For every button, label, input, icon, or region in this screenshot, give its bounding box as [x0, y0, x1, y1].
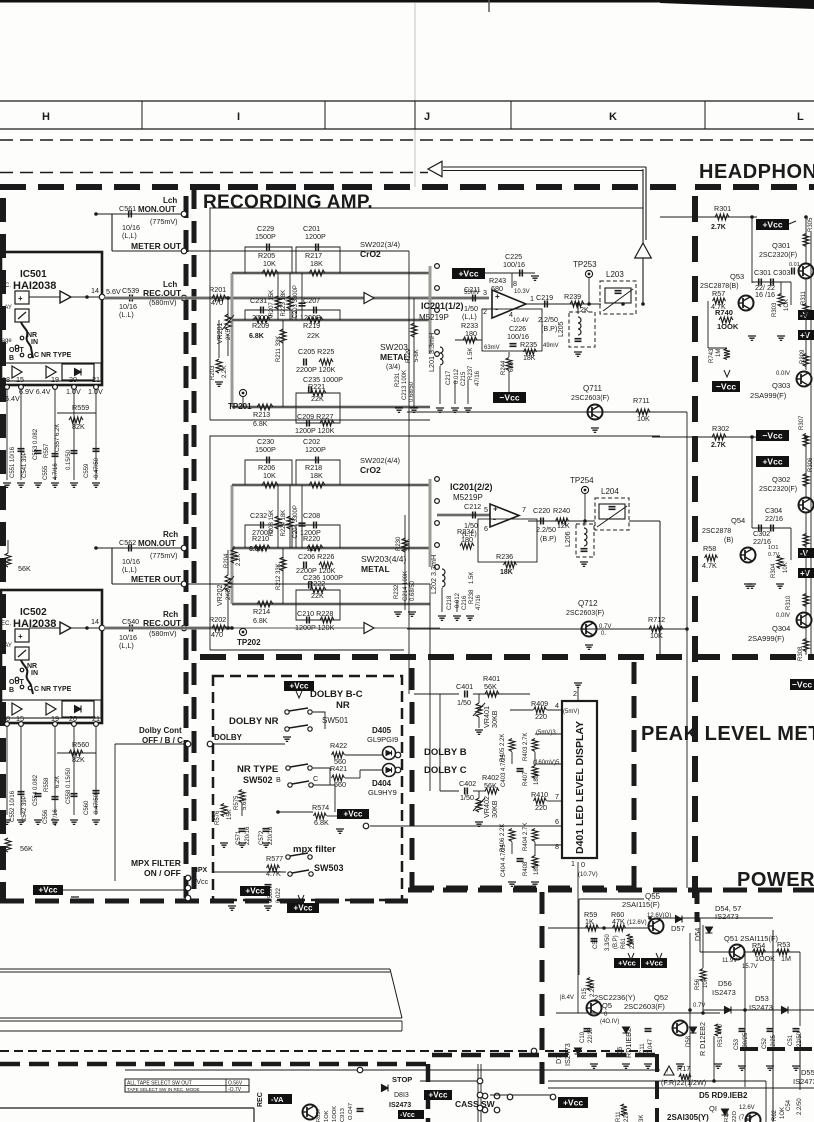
svg-text:C559: C559: [84, 463, 90, 478]
ground r576: [220, 843, 228, 847]
wire ic502 out2: [71, 627, 104, 629]
junction fb R: [658, 627, 662, 631]
wire mpx vcc: [70, 889, 186, 891]
resistor R58: [705, 555, 718, 561]
svg-text:IS2473: IS2473: [793, 1077, 814, 1086]
ground col a1: [395, 408, 403, 412]
svg-text:C552 10/16: C552 10/16: [10, 790, 16, 822]
svg-text:D57: D57: [671, 924, 685, 933]
cap loop2b R: [296, 525, 340, 548]
svg-text:MON.OUT: MON.OUT: [138, 539, 176, 548]
svg-text:C913: C913: [340, 1108, 346, 1122]
ground cluster a x38: [34, 483, 42, 487]
resistor R304: [777, 556, 783, 569]
capacitor C225: [520, 270, 523, 277]
wire q51: [699, 918, 701, 952]
svg-text:1OOK: 1OOK: [717, 322, 739, 331]
svg-text:6.8K: 6.8K: [249, 546, 264, 553]
resistor R404: [532, 829, 538, 842]
svg-text:LAY: LAY: [1, 305, 12, 311]
wire r244b: [508, 371, 510, 392]
mpx vcc arrow: [298, 895, 304, 902]
svg-text:R307: R307: [799, 415, 805, 430]
long wire bottom b1: [0, 1017, 402, 1019]
ground c225: [531, 276, 539, 280]
cass sw c3: [482, 1107, 488, 1113]
IC501 buffer triangle: [60, 291, 71, 303]
wire r574b: [327, 815, 337, 817]
stop node3: [477, 1105, 483, 1111]
ground col a5: [464, 408, 472, 412]
svg-text:−Vcc: −Vcc: [792, 679, 812, 689]
variable resistor VR402: [476, 798, 482, 812]
svg-text:+Vcc: +Vcc: [563, 1097, 583, 1107]
switch contact a3: [20, 353, 24, 357]
flow arrow rch: [364, 623, 374, 634]
resistor R310 sym: [803, 594, 809, 607]
svg-text:0.: 0.: [601, 631, 606, 637]
transistor Q51: [730, 945, 745, 960]
transistor Q304: [797, 613, 812, 628]
svg-text:R224 18K: R224 18K: [281, 510, 287, 537]
svg-text:1.5K: 1.5K: [469, 572, 475, 584]
IC501 pin circle x7: [5, 385, 10, 390]
NR switch wiggle wire b: [21, 660, 33, 694]
wire rv L: [277, 273, 279, 320]
svg-text:R58: R58: [703, 544, 716, 553]
svg-text:D58: D58: [686, 1035, 692, 1047]
resistor C205 R225 res: [319, 359, 333, 365]
terminal Rch meter out: [181, 581, 187, 587]
vcc arrow r743: [724, 370, 730, 377]
svg-text:Q712: Q712: [578, 599, 598, 608]
svg-text:C551 10/16: C551 10/16: [10, 446, 16, 478]
svg-text:1/50: 1/50: [460, 793, 474, 802]
gray rail1 R: [232, 484, 430, 487]
svg-text:47/16: 47/16: [476, 594, 482, 610]
svg-text:0.7V: 0.7V: [599, 624, 611, 630]
peak meter block bottom border: [412, 886, 634, 891]
resistor R15 sym: [587, 978, 593, 991]
capacitor C203 3300P: [299, 303, 306, 306]
svg-text:C562: C562: [119, 538, 136, 547]
svg-text:11.9V: 11.9V: [722, 958, 737, 964]
capacitor c560 sym: [93, 791, 100, 794]
wire r203: [218, 320, 220, 358]
svg-text:2: 2: [573, 689, 577, 698]
svg-text:+Vcc: +Vcc: [192, 877, 209, 886]
capacitor c556 sym: [52, 797, 59, 800]
svg-text:TP253: TP253: [573, 260, 597, 269]
svg-text:R558: R558: [44, 777, 50, 792]
svg-text:C215: C215: [461, 371, 467, 386]
wire pin7 wire: [547, 800, 562, 802]
vcc box mpx left: [33, 885, 63, 895]
rail1 thin L: [232, 272, 430, 274]
wire col c: [467, 380, 469, 404]
svg-text:PEAK LEVEL METER: PEAK LEVEL METER: [641, 723, 814, 745]
capacitor c551 sym: [18, 449, 25, 452]
svg-text:L204: L204: [601, 487, 619, 496]
cass node b: [550, 1094, 556, 1100]
resistor R222: [310, 587, 326, 593]
svg-text:18: 18: [2, 375, 10, 384]
long wire diagonal: [390, 969, 402, 1018]
svg-text:B: B: [9, 355, 14, 362]
meter out wire R: [186, 583, 430, 585]
junction Rch mon.out: [94, 546, 98, 550]
wire r229: [413, 298, 415, 408]
capacitor c559 sym: [93, 449, 100, 452]
terminal dolby right: [363, 823, 369, 829]
svg-text:6: 6: [555, 817, 559, 826]
svg-text:18K: 18K: [523, 355, 536, 362]
svg-text:20: 20: [69, 375, 77, 384]
op-amp IC201 second half: [490, 504, 519, 527]
junction lch bus: [230, 296, 234, 300]
svg-text:R310: R310: [786, 595, 792, 610]
capacitor C231: [261, 307, 264, 314]
bottom left box right: [253, 1108, 255, 1122]
right vertical pair b: [799, 1052, 801, 1090]
svg-text:82K: 82K: [72, 755, 85, 764]
capacitor C303: [771, 279, 774, 286]
IC502 box: [1, 590, 102, 723]
gray rail3 R: [232, 603, 430, 606]
IC502 buffer triangle: [60, 622, 71, 634]
resistor R306 sym: [803, 474, 809, 487]
svg-text:14: 14: [91, 617, 99, 626]
vcc box bottom: [398, 1110, 424, 1119]
IC502 pin circle x7: [5, 722, 10, 727]
wire r56 vert: [702, 925, 704, 968]
page top right wedge: [660, 0, 814, 9]
svg-text:IS2473: IS2473: [749, 1003, 773, 1012]
gray rail3 L: [232, 406, 430, 409]
capacitor c552 sym: [18, 792, 25, 795]
svg-text:CrO2: CrO2: [360, 249, 381, 259]
vertical feedback line L: [642, 169, 644, 304]
ground d401 a: [508, 882, 516, 886]
wire col b: [454, 380, 456, 404]
svg-text:C554 0.082: C554 0.082: [33, 774, 39, 806]
test point TP201: [239, 389, 246, 396]
svg-text:C207: C207: [303, 296, 320, 305]
svg-text:+: +: [18, 632, 23, 641]
svg-text:C214 100K: C214 100K: [403, 571, 409, 601]
resistor R303: [778, 294, 784, 307]
svg-text:3: 3: [483, 288, 487, 297]
svg-text:22K: 22K: [307, 331, 320, 340]
transistor Q1 sym: [746, 1113, 761, 1122]
NR switch wiggle wire: [21, 322, 33, 358]
peak meter block right border: [632, 662, 637, 888]
svg-text:R203: R203: [210, 365, 216, 380]
svg-text:49mV: 49mV: [543, 343, 559, 349]
svg-text:5.6V: 5.6V: [106, 287, 121, 296]
resistor R221: [310, 390, 326, 396]
resistor C209 R227 res: [320, 420, 334, 426]
resistor R212 33K: [280, 557, 286, 571]
IC502 slash sign: [18, 650, 26, 657]
svg-text:R408: R408: [523, 861, 529, 876]
rail3 thin R: [232, 603, 430, 605]
capacitor C53 sym: [739, 1029, 746, 1032]
feedback box R: [478, 519, 537, 562]
IC502 pin circle x96: [94, 722, 99, 727]
wire pin4 wire: [547, 709, 562, 711]
peak meter block left border: [410, 668, 415, 888]
svg-text:R202: R202: [209, 615, 226, 624]
wire vcc pin8: [492, 272, 512, 274]
svg-text:METER OUT: METER OUT: [131, 574, 182, 584]
svg-text:C540: C540: [122, 617, 139, 626]
svg-text:TP202: TP202: [237, 638, 261, 647]
svg-text:C541 39P: C541 39P: [22, 451, 28, 478]
junction r301: [750, 215, 754, 219]
wire pin drop x7: [6, 390, 8, 480]
svg-text:+Vcc: +Vcc: [762, 219, 782, 229]
svg-text:C218: C218: [447, 595, 453, 610]
svg-text:+V: +V: [800, 331, 811, 340]
vcc box hp1: [756, 219, 789, 230]
svg-text:12.6V: 12.6V: [739, 1105, 755, 1111]
svg-text:R212 33K: R212 33K: [276, 563, 282, 590]
wire q51 row: [745, 951, 800, 953]
ic501 inner triangle 1: [12, 366, 22, 378]
svg-text:L: L: [797, 111, 804, 123]
wire r53 down: [799, 952, 801, 1010]
cap loop2a R: [245, 525, 292, 548]
svg-text:IS2473: IS2473: [712, 988, 736, 997]
sw502 interconnect b: [313, 785, 335, 812]
svg-text:+Vcc: +Vcc: [39, 885, 58, 894]
svg-text:SW203: SW203: [380, 342, 408, 352]
capacitor c555 sym: [52, 454, 59, 457]
bottom main dashed border right: [408, 888, 814, 893]
wire r233: [455, 339, 482, 341]
capacitor C229: [267, 244, 270, 251]
IC502 pin circle x21: [19, 722, 24, 727]
rail1 thin R: [232, 484, 430, 486]
svg-text:2.7K: 2.7K: [711, 224, 726, 231]
wire pin drop b x55: [54, 727, 56, 815]
sw203 lever b: [429, 545, 432, 567]
svg-text:CrO2: CrO2: [360, 465, 381, 475]
svg-text:IC502: IC502: [20, 607, 47, 618]
svg-text:(L,L): (L,L): [462, 312, 477, 321]
svg-text:+Vcc: +Vcc: [645, 958, 663, 967]
svg-text:−Vcc: −Vcc: [716, 381, 736, 391]
ground col b1: [394, 612, 402, 616]
right vertical pair a: [772, 930, 774, 1122]
svg-text:1OK: 1OK: [324, 1110, 330, 1122]
long wire bottom b2: [0, 1020, 402, 1022]
terminal mpx filter: [185, 875, 191, 881]
wire vr401 b: [478, 717, 480, 728]
svg-text:2: 2: [483, 307, 487, 316]
resistor R59: [586, 925, 599, 931]
L204 inner box: [599, 504, 625, 519]
svg-text:R232: R232: [394, 584, 400, 599]
wire vr402: [478, 791, 480, 798]
wire vr401: [478, 694, 480, 703]
wire r575: [241, 803, 243, 816]
resistor 56K a: [5, 553, 11, 567]
svg-text:22K: 22K: [311, 394, 324, 403]
vcc arrow opamp L: [485, 272, 492, 274]
arrow up feedback: [635, 243, 652, 258]
svg-text:10K: 10K: [263, 259, 276, 268]
dolby vcc arrow: [296, 691, 302, 698]
svg-text:C542 39P: C542 39P: [22, 795, 28, 822]
svg-text:2SC2603(F): 2SC2603(F): [624, 1002, 665, 1011]
svg-text:R219: R219: [303, 321, 320, 330]
wire peak b2: [511, 752, 513, 764]
IC501 slash sign: [18, 312, 26, 319]
svg-text:C52: C52: [762, 1037, 768, 1049]
resistor R213: [257, 404, 273, 410]
IC501 pin circle x55: [53, 385, 58, 390]
wire rch recout thin: [104, 627, 440, 629]
ground Q711: [591, 428, 599, 432]
svg-text:QI: QI: [709, 1104, 717, 1113]
junction r302: [750, 435, 754, 439]
diode D53a sym: [725, 1007, 732, 1014]
svg-text:R220: R220: [303, 534, 320, 543]
capacitor C11 sym: [645, 1029, 652, 1032]
svg-text:L203: L203: [606, 270, 624, 279]
D401 display box: [562, 701, 597, 858]
svg-text:NR: NR: [27, 332, 37, 339]
resistor R211 33K: [280, 329, 286, 343]
resistor R202: [212, 625, 226, 631]
svg-text:R209: R209: [252, 321, 269, 330]
capacitor C201: [316, 244, 319, 251]
resistor R311 sym: [803, 304, 809, 317]
wire r743b: [708, 347, 727, 349]
hp right wire seg4: [805, 513, 807, 655]
resistor R577: [267, 865, 280, 871]
resistor R230 sym: [402, 538, 408, 552]
inductor L205: [578, 317, 581, 335]
wire hp right vert b: [790, 528, 792, 560]
svg-text:30KB: 30KB: [490, 800, 499, 818]
ground pw2: [622, 1064, 630, 1068]
cap loop1a L: [245, 247, 292, 273]
svg-text:R214: R214: [253, 607, 270, 616]
svg-text:REC: REC: [257, 1092, 264, 1107]
capacitor c913 sym: [357, 1109, 364, 1112]
svg-text:MPX: MPX: [192, 867, 208, 874]
capacitor C210 R228: [307, 617, 310, 624]
wire r409b: [547, 709, 562, 711]
cap loop2a L: [245, 310, 292, 320]
wire pw top v: [578, 899, 580, 975]
resistor R740: [719, 317, 733, 323]
svg-text:R221: R221: [308, 382, 325, 391]
cap loop4 R: [296, 604, 340, 620]
svg-text:POWER: POWER: [737, 869, 814, 891]
resistor R712: [649, 626, 663, 632]
L203 inner box: [605, 288, 631, 303]
resistor C210 R228 res: [320, 617, 334, 623]
L206 dashed box: [576, 524, 594, 557]
svg-text:GL9PGI9: GL9PGI9: [367, 735, 398, 744]
svg-text:K: K: [609, 111, 617, 123]
resistor R206: [262, 482, 278, 488]
capacitor C209 R227: [307, 420, 310, 427]
wire hp right vert a: [790, 282, 792, 305]
svg-text:2.2/50: 2.2/50: [797, 1098, 803, 1115]
svg-text:Q301: Q301: [772, 241, 790, 250]
switch contact a1: [20, 336, 24, 340]
junction tp253: [587, 302, 591, 306]
svg-text:22/16: 22/16: [765, 514, 783, 523]
vcc box clip b: [798, 330, 814, 340]
resistor R220: [307, 545, 323, 551]
wire sw opamp thin R: [437, 514, 490, 516]
bottom main dashed border left: [0, 899, 408, 904]
svg-text:R711: R711: [633, 396, 650, 405]
cap loop4 L: [296, 407, 340, 423]
bottom left box top: [0, 1107, 254, 1109]
page top edge line: [0, 0, 814, 3]
svg-text:4.7/16: 4.7/16: [53, 463, 59, 480]
svg-text:D8I3: D8I3: [394, 1092, 409, 1099]
svg-text:0.047: 0.047: [648, 1038, 654, 1054]
svg-text:(775mV): (775mV): [150, 217, 178, 226]
svg-text:2.2K: 2.2K: [222, 366, 228, 378]
svg-text:56K: 56K: [20, 844, 33, 853]
svg-text:C557 6.2K: C557 6.2K: [55, 424, 61, 452]
svg-text:10K: 10K: [637, 414, 650, 423]
svg-text:MON.OUT: MON.OUT: [138, 205, 176, 214]
svg-text:R740: R740: [715, 308, 733, 317]
svg-text:C213 100K: C213 100K: [402, 370, 408, 400]
svg-text:2SAI115(F): 2SAI115(F): [622, 900, 660, 909]
gray rail1 L: [232, 272, 430, 275]
hp right vertical: [810, 232, 812, 655]
resistor R421: [332, 775, 345, 781]
capacitor C211: [473, 295, 476, 302]
svg-text:IS2473: IS2473: [715, 912, 739, 921]
svg-text:1: 1: [571, 859, 575, 868]
svg-text:D56: D56: [718, 979, 732, 988]
d401 stub pin5: [535, 763, 562, 765]
svg-text:1500P: 1500P: [255, 232, 276, 241]
capacitor L205: [575, 339, 582, 342]
wire r409: [510, 709, 533, 711]
resistor R711: [636, 409, 650, 415]
sw203 contacts a: [435, 330, 440, 357]
cass node a: [507, 1094, 513, 1100]
svg-text:SW501: SW501: [322, 716, 349, 725]
ground pw3: [644, 1064, 652, 1068]
svg-text:180: 180: [461, 535, 473, 544]
svg-text:2SC2320(F): 2SC2320(F): [759, 252, 797, 259]
svg-text:L205: L205: [558, 321, 565, 337]
ground L205: [574, 352, 582, 356]
resistor R308 sym: [803, 639, 809, 652]
ground col b2: [408, 612, 416, 616]
svg-text:TAPE SELECT SW IN REC. MODE: TAPE SELECT SW IN REC. MODE: [127, 1087, 200, 1092]
capacitor C208: [314, 522, 317, 529]
transistor Q5: [587, 1001, 602, 1016]
svg-text:R743: R743: [709, 348, 715, 363]
wire peak b1: [439, 694, 441, 791]
svg-text:Q53: Q53: [730, 272, 744, 281]
